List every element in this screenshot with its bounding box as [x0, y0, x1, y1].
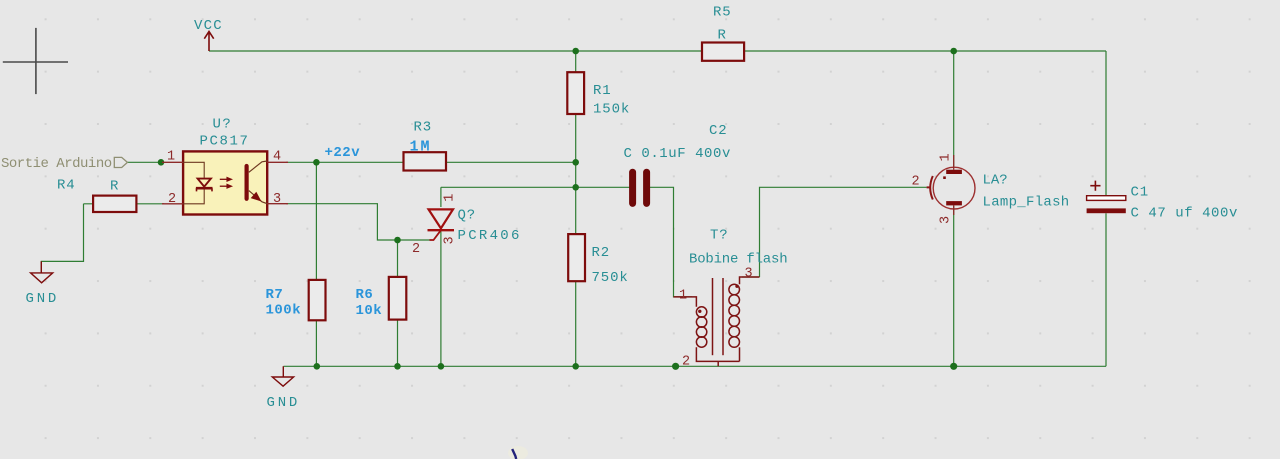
junction anode row: [572, 184, 579, 191]
svg-text:R2: R2: [592, 245, 610, 261]
svg-text:R7: R7: [266, 287, 284, 303]
svg-text:1: 1: [167, 150, 175, 165]
svg-text:PCR406: PCR406: [458, 228, 522, 244]
svg-text:Lamp_Flash: Lamp_Flash: [983, 195, 1070, 211]
wire R4 right to opto pin2: [136, 203, 164, 205]
svg-text:R: R: [718, 27, 727, 43]
svg-text:2: 2: [168, 192, 176, 207]
ground symbol center: [272, 366, 293, 386]
resistor R5: [702, 43, 744, 61]
junction rail transformer pin 2: [672, 363, 679, 370]
svg-text:U?: U?: [213, 117, 233, 133]
junction rail R7: [314, 363, 321, 370]
secondary winding: [729, 277, 760, 361]
junction at opto pin 1: [158, 159, 165, 166]
sheet origin crosshair: [3, 28, 68, 94]
svg-text:2: 2: [682, 355, 690, 370]
svg-text:VCC: VCC: [194, 18, 223, 34]
svg-text:Q?: Q?: [458, 208, 476, 224]
core: [713, 278, 724, 355]
global label arrow: [114, 157, 127, 167]
svg-text:1: 1: [679, 289, 687, 304]
opto phototransistor: [247, 161, 268, 204]
svg-text:C 47 uf 400v: C 47 uf 400v: [1131, 206, 1238, 222]
svg-text:+22v: +22v: [325, 145, 361, 161]
svg-text:C2: C2: [709, 123, 727, 139]
svg-text:4: 4: [273, 150, 281, 165]
junction R3 to R1 node: [572, 159, 579, 166]
svg-text:3: 3: [939, 216, 954, 224]
ground symbol left: [31, 261, 53, 282]
junction gate R6: [394, 237, 401, 244]
svg-text:3: 3: [443, 236, 458, 244]
wire +22v down to R7: [315, 162, 317, 280]
lamp pin leads: [953, 155, 955, 170]
junction top rail lamp: [950, 48, 957, 55]
resistor R1: [567, 72, 584, 114]
wire R6 bottom: [397, 320, 399, 367]
junction rail lamp pin 3: [950, 363, 957, 370]
wire top VCC rail: [41, 51, 1106, 366]
junction +22v node: [313, 159, 320, 166]
wire node to C2: [576, 186, 631, 188]
svg-text:T?: T?: [710, 228, 728, 244]
lamp LA? Lamp_Flash: [912, 153, 1070, 224]
svg-text:R5: R5: [713, 5, 731, 21]
svg-text:1: 1: [443, 194, 458, 202]
junction rail R6: [394, 363, 401, 370]
svg-text:2: 2: [412, 242, 420, 257]
svg-text:GND: GND: [267, 395, 301, 411]
wire R7 bottom: [315, 320, 317, 366]
thyristor Q? PCR406: [412, 194, 522, 257]
wire lamp pin3: [953, 206, 955, 366]
wire R3 to R1 node: [446, 161, 576, 163]
svg-text:1: 1: [939, 153, 954, 161]
capacitor C1 polarized: [1087, 181, 1238, 222]
svg-text:R4: R4: [57, 178, 75, 194]
svg-text:150k: 150k: [593, 101, 630, 117]
svg-text:R1: R1: [593, 83, 611, 99]
transformer T? Bobine flash: [674, 228, 788, 370]
capacitor C2: [633, 172, 647, 203]
junction rail cathode: [438, 363, 445, 370]
resistor R3: [404, 152, 447, 170]
wire R6 top: [397, 240, 399, 277]
resistor R2: [568, 234, 585, 281]
svg-text:3: 3: [273, 192, 281, 207]
wire C2 to transformer pin1: [648, 187, 692, 297]
primary polarity dot: [698, 310, 701, 313]
wire R1 top: [575, 51, 577, 72]
wire R1 bottom to R2 top: [575, 114, 577, 234]
svg-text:R6: R6: [356, 287, 374, 303]
wire R4 left to GND: [41, 204, 93, 273]
svg-text:Bobine flash: Bobine flash: [689, 252, 787, 268]
opto internal LED: [183, 162, 204, 204]
svg-text:750k: 750k: [592, 270, 629, 286]
power symbol VCC: [204, 32, 213, 52]
resistor R7: [309, 280, 326, 320]
wire opto pin3 to gate: [286, 204, 430, 240]
svg-text:LA?: LA?: [983, 173, 1008, 189]
svg-text:10k: 10k: [356, 303, 383, 319]
wire label to opto pin1: [127, 161, 164, 163]
junction rail R2: [572, 363, 579, 370]
wire C1 top branch: [1105, 51, 1107, 196]
svg-text:R3: R3: [414, 120, 432, 136]
opto coupling arrows: [220, 178, 232, 188]
wire transformer pin3 to lamp trigger: [742, 187, 927, 277]
svg-text:GND: GND: [26, 291, 60, 307]
svg-text:3: 3: [745, 267, 753, 282]
opto pin leads: [162, 162, 288, 204]
svg-text:C 0.1uF 400v: C 0.1uF 400v: [624, 146, 731, 162]
svg-text:1M: 1M: [410, 139, 432, 156]
resistor R6: [389, 277, 407, 320]
svg-text:PC817: PC817: [200, 134, 250, 150]
junction top rail R1: [572, 48, 579, 55]
wire bottom ground rail: [284, 365, 1107, 367]
lamp trigger electrode: [927, 176, 933, 200]
svg-text:R: R: [110, 179, 119, 195]
svg-text:100k: 100k: [266, 303, 302, 319]
primary winding: [674, 297, 740, 366]
wire lamp pin1: [953, 51, 955, 166]
wire C1 bottom branch: [1105, 213, 1107, 366]
svg-text:2: 2: [912, 175, 920, 190]
mouse cursor: [508, 446, 528, 459]
wire opto pin4 to R3: [286, 161, 404, 163]
svg-text:C1: C1: [1131, 185, 1149, 201]
wire SCR anode row: [441, 187, 576, 207]
wire R2 bottom: [575, 281, 577, 366]
secondary polarity dot: [735, 285, 738, 288]
resistor R4: [93, 196, 136, 212]
svg-text:Sortie Arduino: Sortie Arduino: [1, 156, 112, 172]
wire SCR cathode down: [440, 232, 442, 367]
optocoupler U? PC817: [162, 117, 288, 215]
